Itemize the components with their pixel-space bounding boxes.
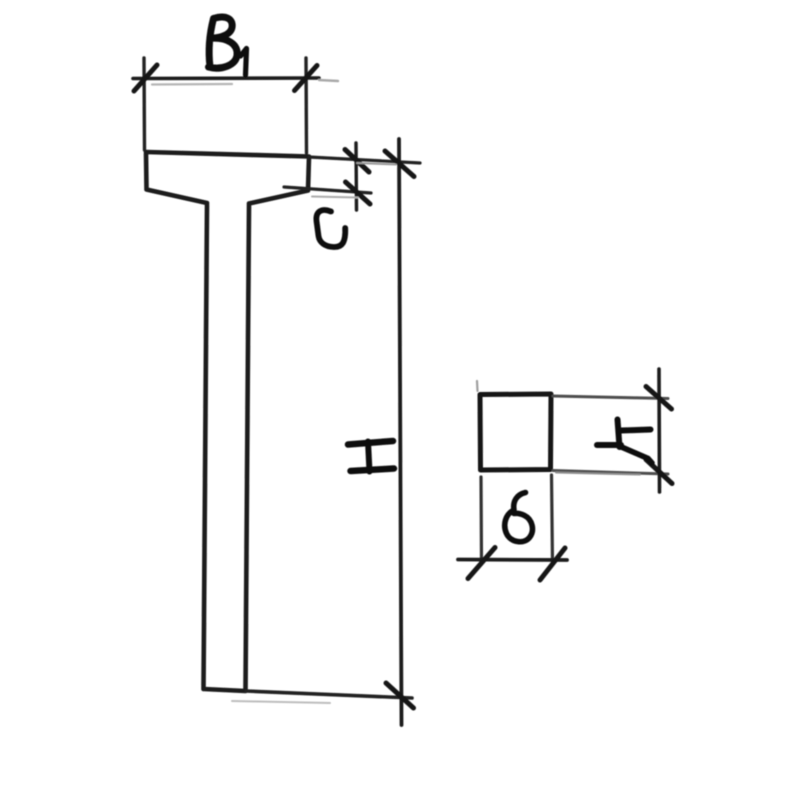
dimension h bottom extension bbox=[553, 471, 668, 475]
dimension b1 extension line right bbox=[304, 58, 308, 153]
label h rotated bbox=[597, 420, 652, 464]
dimension b1 tick left bbox=[134, 65, 157, 91]
dimension c tick top bbox=[345, 150, 369, 173]
dimension c line bbox=[354, 143, 358, 210]
label b1 letter в bbox=[209, 17, 238, 68]
label c rotated bbox=[316, 210, 345, 247]
dimension b1 tick right bbox=[295, 66, 318, 91]
dimension c bottom extension bbox=[284, 187, 371, 193]
dimension h tick bottom bbox=[646, 460, 672, 484]
scan artifact gray strokes bbox=[152, 83, 232, 86]
dimension H line bbox=[399, 139, 402, 725]
dimension b tick left bbox=[468, 548, 495, 579]
dimension h top extension bbox=[553, 396, 668, 399]
dimension b right extension bbox=[552, 475, 553, 564]
dimension H tick bottom bbox=[386, 683, 414, 708]
dimension H bottom extension (web bottom to H line) bbox=[246, 691, 412, 698]
dimension b line bbox=[458, 558, 567, 562]
T-beam cross-section outline bbox=[146, 152, 309, 691]
dimension h line bbox=[657, 369, 661, 492]
dimension c top extension (flange top to H line) bbox=[309, 157, 420, 163]
dimension b1 line bbox=[133, 76, 319, 80]
dimension b tick right bbox=[540, 548, 565, 580]
dimension b1 gray overshoot bbox=[319, 80, 338, 81]
label b1 subscript 1 bbox=[241, 49, 247, 76]
label H rotated bbox=[348, 441, 394, 472]
dimension h tick top bbox=[646, 387, 672, 410]
dimension c tick bottom bbox=[346, 182, 371, 204]
label b (square width) bbox=[505, 493, 533, 542]
dimension b (square width) left extension bbox=[479, 477, 483, 562]
square section outline bbox=[480, 394, 551, 470]
dimension b1 extension line left bbox=[142, 58, 146, 150]
dimension H tick top bbox=[385, 151, 414, 177]
